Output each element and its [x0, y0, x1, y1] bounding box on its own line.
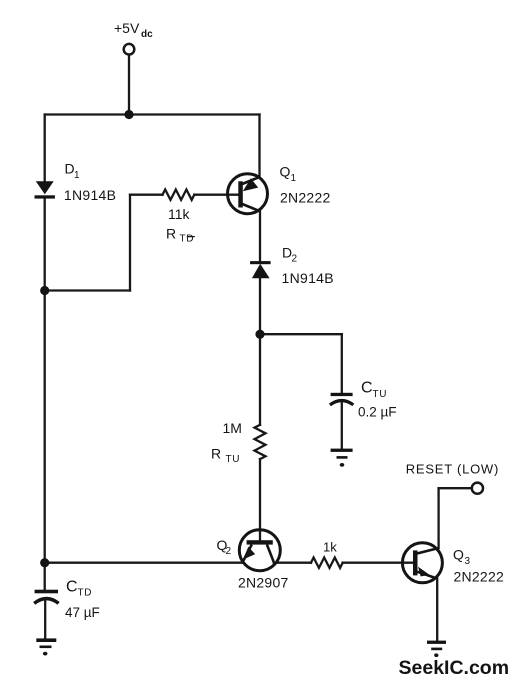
svg-text:RESET (LOW): RESET (LOW): [406, 462, 499, 477]
svg-text:+5V: +5V: [114, 20, 140, 36]
svg-text:2N2222: 2N2222: [280, 190, 331, 206]
capacitor C_TU: [330, 393, 353, 405]
wire node C to C_TU branch: [260, 333, 342, 335]
svg-text:1N914B: 1N914B: [64, 187, 116, 203]
resistor R_TU 1M zigzag: [255, 425, 266, 459]
svg-text:2: 2: [292, 254, 298, 265]
svg-text:1k: 1k: [323, 539, 337, 554]
svg-text:11k: 11k: [168, 206, 191, 222]
wire left branch down to D1: [44, 115, 46, 183]
transistor Q1: [228, 174, 268, 214]
wire Q2 collector to 1k: [274, 562, 311, 564]
svg-text:C: C: [66, 578, 78, 595]
svg-text:2N2907: 2N2907: [238, 575, 289, 591]
svg-text:TU: TU: [373, 389, 388, 400]
svg-text:SeekIC.com: SeekIC.com: [399, 657, 510, 679]
wire node B to corner: [45, 289, 130, 291]
junction node A (top rail): [124, 110, 133, 119]
svg-text:Q: Q: [453, 547, 464, 563]
wire node C down to R_TU: [259, 334, 261, 425]
wire from +5V terminal down: [128, 55, 130, 115]
wire Q3 emitter down to ground: [436, 579, 438, 642]
transistor Q2: [239, 530, 280, 571]
ground (C_TU): [331, 449, 353, 467]
svg-text:C: C: [361, 379, 373, 396]
top rail wire: [45, 113, 260, 115]
svg-text:1: 1: [74, 170, 80, 181]
wire C_TD junction down: [44, 563, 46, 591]
svg-text:TD: TD: [78, 587, 93, 598]
wire D1 cathode down to node B junction and C_TD junction: [44, 197, 46, 563]
svg-text:0.2 µF: 0.2 µF: [358, 404, 397, 419]
wire D2 cathode to node C: [259, 278, 261, 334]
wire R_TU to Q2 base: [259, 459, 261, 541]
wire Q1 collector to rail: [258, 115, 260, 178]
svg-text:2N2222: 2N2222: [454, 568, 505, 584]
svg-text:TD: TD: [180, 233, 195, 244]
diode D2: [250, 261, 271, 278]
resistor R_TD 11k zigzag: [163, 190, 195, 200]
wire Q1 emitter down to D2: [259, 211, 261, 263]
svg-text:TU: TU: [226, 454, 241, 465]
wire C_TU to ground: [341, 401, 343, 450]
capacitor C_TD: [34, 590, 58, 604]
svg-text:3: 3: [465, 556, 471, 567]
wire to RESET terminal: [439, 487, 472, 489]
junction node C (D2 cathode net): [255, 330, 264, 339]
transistor Q3: [402, 543, 442, 583]
wire left rail to Q2 emitter: [45, 562, 243, 564]
svg-text:1M: 1M: [223, 420, 242, 436]
RESET terminal: [472, 483, 483, 494]
svg-text:R: R: [211, 445, 221, 461]
junction node D (C_TD net): [40, 558, 49, 567]
svg-text:Q: Q: [280, 163, 291, 179]
wire Q3 collector up: [437, 488, 439, 548]
wire C_TD to ground: [44, 601, 46, 639]
ground (Q3): [427, 641, 446, 657]
wire corner up to R_TD level: [129, 195, 131, 291]
wire 1k to Q3 base: [343, 562, 414, 564]
ground (C_TD): [36, 638, 56, 655]
svg-text:dc: dc: [141, 29, 153, 40]
wire R_TD to Q1 base: [194, 194, 239, 196]
wire C_TU branch down: [341, 334, 343, 393]
diode D1: [35, 181, 55, 198]
svg-text:2: 2: [226, 546, 232, 557]
svg-text:47 µF: 47 µF: [65, 605, 100, 620]
resistor 1k zigzag: [311, 558, 343, 568]
wire to R_TD: [130, 194, 163, 196]
svg-text:R: R: [166, 226, 176, 242]
power terminal +5Vdc: [124, 44, 135, 55]
svg-text:1: 1: [291, 173, 297, 184]
junction node B (left, D1 cathode net): [40, 286, 49, 295]
svg-text:1N914B: 1N914B: [282, 270, 334, 286]
